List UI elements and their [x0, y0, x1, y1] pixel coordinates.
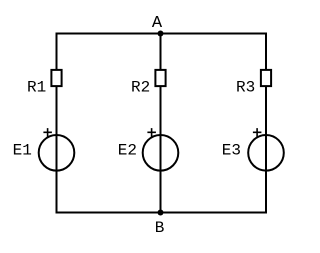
svg-text:R1: R1: [27, 79, 46, 97]
svg-text:A: A: [152, 14, 163, 33]
source E2 circle: [143, 135, 179, 171]
svg-text:E1: E1: [13, 142, 32, 160]
wire right branch vertical: [265, 33, 267, 214]
source E3 circle: [248, 135, 284, 171]
source E3 plus: [253, 128, 262, 136]
wire top horizontal A rail: [57, 33, 267, 35]
svg-text:E2: E2: [118, 142, 137, 160]
source E1 plus: [43, 128, 52, 136]
source E2 plus: [147, 128, 156, 136]
svg-text:E3: E3: [222, 142, 241, 160]
node B junction dot: [158, 210, 164, 216]
wire bottom horizontal B rail: [57, 212, 267, 214]
svg-text:R2: R2: [131, 79, 150, 97]
node A junction dot: [158, 31, 164, 37]
source E1 circle: [39, 135, 75, 171]
resistor R2: [155, 70, 165, 86]
resistor R1: [51, 70, 61, 86]
wire middle branch vertical: [160, 34, 162, 213]
svg-text:R3: R3: [236, 79, 255, 97]
svg-text:B: B: [155, 219, 165, 237]
wire left branch vertical: [56, 33, 58, 214]
resistor R3: [261, 70, 271, 86]
